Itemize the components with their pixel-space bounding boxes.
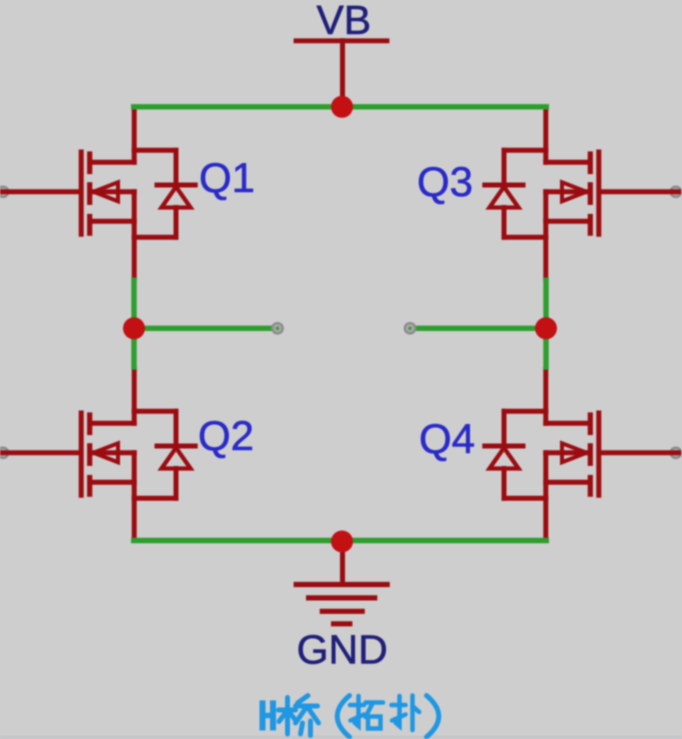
wire left output stub xyxy=(134,326,278,331)
pin Q4 gate (open) xyxy=(671,448,681,458)
junction left output node xyxy=(123,317,145,339)
svg-text:VB: VB xyxy=(316,0,371,43)
svg-text:Q1: Q1 xyxy=(199,154,255,201)
wire left half-bridge output vertical xyxy=(131,278,136,370)
pin right output (open) xyxy=(405,323,415,333)
transistor Q4 body xyxy=(485,370,679,539)
junction bottom (GND node) xyxy=(331,531,353,553)
pin Q2 gate (open) xyxy=(0,448,8,458)
pin left output (open) xyxy=(272,323,282,333)
caption letter H xyxy=(260,700,277,730)
svg-text:Q2: Q2 xyxy=(198,412,254,459)
transistor Q1 body xyxy=(0,110,195,279)
caption hanzi pu (flutter) xyxy=(392,696,420,731)
caption fullwidth close paren xyxy=(427,696,439,738)
pin Q3 gate (open) xyxy=(671,187,681,197)
caption fullwidth open paren xyxy=(337,696,349,738)
svg-text:GND: GND xyxy=(297,626,388,672)
junction top (VB node) xyxy=(331,96,353,118)
svg-text:Q4: Q4 xyxy=(419,415,475,462)
wire right half-bridge output vertical xyxy=(543,278,548,370)
junction right output node xyxy=(535,317,557,339)
svg-text:Q3: Q3 xyxy=(417,158,473,205)
transistor Q3 body xyxy=(485,110,679,279)
wire top rail VB xyxy=(131,104,549,109)
power symbol VB xyxy=(296,41,387,107)
pin Q1 gate (open) xyxy=(0,187,8,197)
wire bottom rail GND xyxy=(131,538,549,543)
caption hanzi qiao (bridge) xyxy=(279,696,319,736)
ground symbol xyxy=(296,542,387,624)
wire right output stub xyxy=(410,326,546,331)
transistor Q2 body xyxy=(0,370,195,539)
caption hanzi tuo (extend) xyxy=(350,696,383,729)
